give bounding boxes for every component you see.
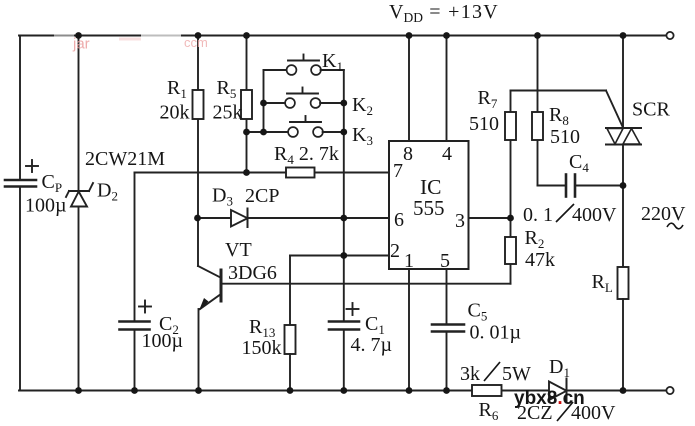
wire pin4 [446,36,448,142]
svg-text:47k: 47k [525,249,555,271]
svg-text:400V: 400V [572,204,617,226]
resistor RL [618,267,629,299]
pushbutton K3 [247,131,289,133]
capacitor C4 [565,175,568,197]
svg-text:SCR: SCR [632,99,670,121]
svg-text:2: 2 [390,240,400,262]
diode D3 [231,210,248,227]
resistor R2 [505,237,516,264]
C1 plus sign [347,308,359,310]
terminal bottom right [666,387,673,394]
svg-text:8: 8 [403,143,413,165]
resistor R1 [193,90,204,119]
node C4-SCR [620,182,627,189]
node VDD-SCR [620,32,627,39]
node gnd-R13 [287,387,294,394]
capacitor C5 [432,323,464,326]
svg-text:2CP: 2CP [245,185,279,207]
resistor R5 [241,90,252,119]
wire R8 branch [537,36,539,113]
wire pin1 [408,269,410,391]
wire bottom rail [19,390,667,392]
resistor R13 [285,325,296,354]
node VDD-R8 [534,32,541,39]
node VDD-R1 [195,32,202,39]
CP plus sign [26,165,38,167]
wire pin3 [469,217,511,219]
svg-text:3DG6: 3DG6 [228,262,277,284]
triac SCR [622,36,624,129]
svg-text:100µ: 100µ [142,330,184,352]
node K3-R5 [243,129,250,136]
svg-text:100µ: 100µ [25,195,67,217]
svg-text:7: 7 [393,160,403,182]
wire R7/R2 vertical [510,91,512,113]
node VDD-pin4 [443,32,450,39]
resistor R4 [286,168,315,178]
resistor R8 [532,112,543,140]
svg-text:6: 6 [394,209,404,231]
wire emitter to bottom [198,309,200,391]
node gnd-VT [195,387,202,394]
node VDD-R5 [243,32,250,39]
node gnd-C1 [340,387,347,394]
wire pin6 / D3 line [198,217,390,219]
node gnd-D2 [75,387,82,394]
resistor R6 [472,385,502,396]
wire left branch vertical [19,36,21,181]
svg-text:ccm: ccm [184,35,208,50]
svg-text:0. 01µ: 0. 01µ [470,322,522,344]
svg-text:150k: 150k [242,337,282,359]
wire pin7 / R4 line [135,172,390,174]
wire pin5 / C5 branch [446,269,448,325]
wire switch-left vertical [263,70,265,132]
svg-text:220V: 220V [641,203,686,225]
pushbutton K1 [264,69,287,71]
svg-text:510: 510 [550,126,580,148]
svg-text:25k: 25k [213,102,243,124]
zener diode D2 [71,192,87,207]
resistor R7 [505,112,516,140]
wire gate line [511,90,607,92]
svg-text:jar: jar [72,36,90,53]
svg-text:4: 4 [442,143,452,165]
wire C2 branch vertical [134,173,136,322]
node pin6-C1 [340,215,347,222]
wire R5 branch [246,36,248,91]
wire top VDD rail [19,35,667,37]
svg-text:4. 7µ: 4. 7µ [351,334,393,356]
capacitor CP [5,179,36,182]
wire D2 branch [78,36,80,192]
svg-text:5W: 5W [502,363,531,385]
svg-text:3: 3 [455,210,465,232]
wire pin2 line [290,255,389,257]
svg-text:ybx8.cn: ybx8.cn [514,388,585,409]
node VDD-D2 [75,32,82,39]
IC 555 box U1 [389,141,469,269]
svg-text:20k: 20k [160,102,190,124]
wire C1 branch [343,218,345,321]
watermark pink remnants [54,31,208,52]
svg-text:3k: 3k [460,363,480,385]
diode D1 [549,382,567,401]
transistor VT [220,270,223,301]
wire switch-right vertical [343,70,345,218]
wire R1 branch [197,36,199,91]
node gnd-C5 [443,387,450,394]
svg-text:510: 510 [469,113,499,135]
node gnd-pin1 [406,387,413,394]
C2 plus sign [139,306,151,308]
pushbutton K2 [264,102,286,104]
node pin3-R7 [507,215,514,222]
node gnd-C2 [131,387,138,394]
node gnd-RL [620,387,627,394]
node VDD-pin8 [406,32,413,39]
node R4-left [243,169,250,176]
node K3-left [260,129,267,136]
svg-text:0. 1: 0. 1 [523,204,553,226]
svg-text:555: 555 [413,196,445,220]
node K2-left [260,100,267,107]
svg-text:VT: VT [225,239,252,261]
wire pin8 [408,36,410,142]
capacitor C1 [329,320,359,323]
wire base line [222,283,511,285]
svg-text:R4 2. 7k: R4 2. 7k [274,143,339,167]
svg-text:5: 5 [440,250,450,272]
terminal top right [666,32,673,39]
node K3-right [340,129,347,136]
svg-text:1: 1 [404,250,414,272]
node K2-right [340,100,347,107]
capacitor C2 [120,320,150,323]
node D3-anode [194,215,201,222]
svg-text:2CW21M: 2CW21M [85,148,165,170]
node pin2-C1 [340,252,347,259]
